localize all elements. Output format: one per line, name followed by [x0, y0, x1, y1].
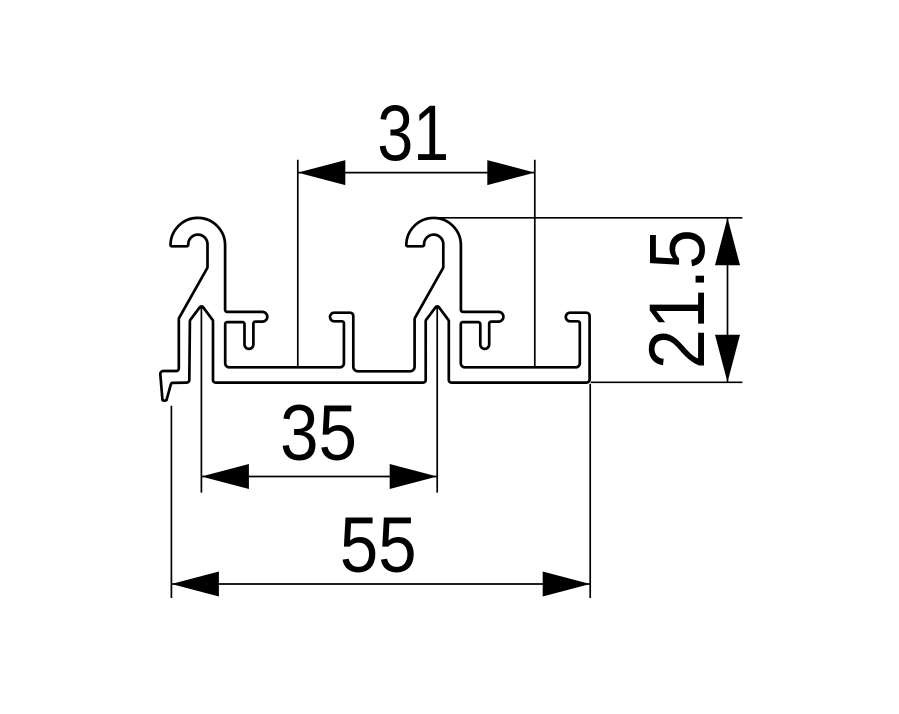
dimension line 55	[171, 583, 590, 585]
arrowhead 31 right	[487, 160, 535, 185]
arrowhead 55 left	[171, 572, 219, 597]
extension line dim 35 right	[436, 307, 438, 493]
arrowhead 31 left	[298, 160, 346, 185]
arrowhead 35 right	[390, 464, 438, 489]
dimension line 31	[298, 172, 535, 174]
extension line dim 35 left	[200, 307, 202, 493]
aluminium profile cross-section outline	[160, 218, 589, 401]
arrowhead 35 left	[201, 464, 249, 489]
extension line dim 21.5 top	[433, 217, 742, 219]
arrowhead 55 right	[543, 572, 591, 597]
svg-text:21.5: 21.5	[633, 229, 721, 369]
extension line dim 55 right	[589, 384, 591, 598]
extension line dim 31 left	[297, 160, 299, 370]
svg-text:55: 55	[340, 501, 417, 589]
dimension line 35	[201, 476, 437, 478]
arrowhead 21.5 up	[715, 218, 740, 265]
extension line dim 31 right	[534, 160, 536, 370]
arrowhead 21.5 down	[715, 335, 740, 383]
svg-text:31: 31	[377, 89, 449, 177]
dimension line 21.5	[727, 218, 729, 382]
extension line dim 55 left	[170, 406, 172, 598]
extension line dim 21.5 bottom	[591, 381, 743, 383]
svg-text:35: 35	[280, 388, 357, 476]
